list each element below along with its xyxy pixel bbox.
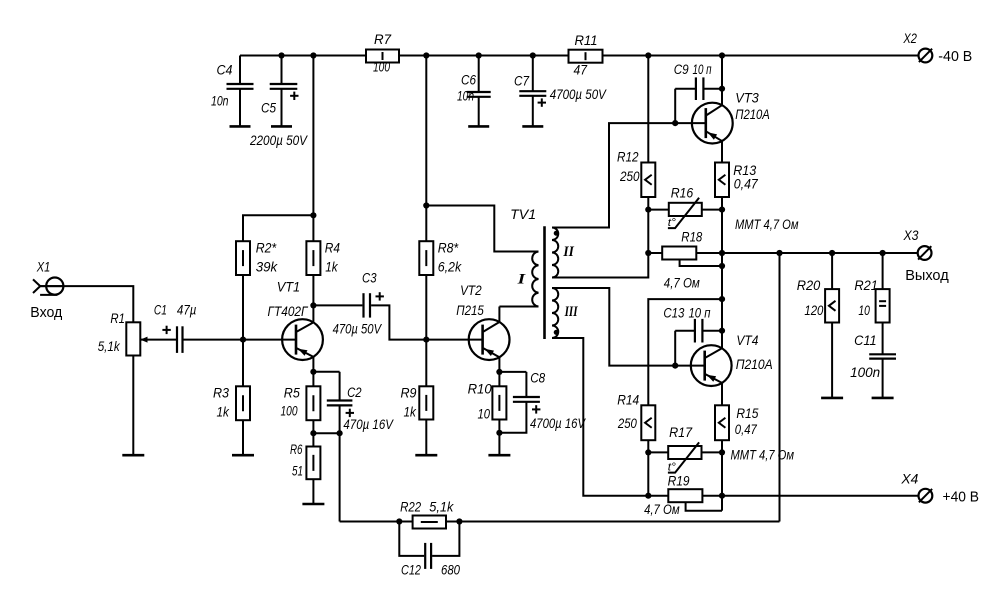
svg-text:II: II [563,244,575,260]
node R10/C8 [496,430,502,436]
ground R20 [821,397,843,400]
svg-text:ГТ402Г: ГТ402Г [268,304,309,319]
wire R5 to R6 [312,420,314,446]
wire R9 bottom [425,420,427,456]
wire output row to X3 [722,252,918,254]
svg-text:R10: R10 [468,382,492,397]
wire R10 bottom [498,420,500,456]
svg-text:X3: X3 [903,228,919,243]
resistor R11 [569,33,603,78]
wire C7 branch [532,56,534,92]
node R18 right [719,250,725,256]
svg-text:R1: R1 [110,311,125,326]
wire VT4 emitter to R15 [721,383,723,405]
svg-text:VT2: VT2 [460,283,482,298]
wire C8 bottom [499,403,526,433]
svg-text:I: I [516,272,526,288]
svg-text:10: 10 [478,406,491,421]
wire C13 tap down [674,331,676,366]
wire C12 right branch [432,522,459,556]
svg-text:C1: C1 [154,303,167,318]
svg-text:10 п: 10 п [689,306,711,321]
svg-text:47µ: 47µ [177,303,197,318]
wire R22 right [446,521,780,523]
svg-text:51: 51 [292,463,303,478]
connector X1 [30,259,63,321]
wire C5 branch [281,56,283,85]
resistor R10 [468,382,507,422]
wire C9 tap down [674,89,676,123]
capacitor C3 [333,271,384,337]
wire R4 to VT1 collector [312,275,314,322]
svg-text:10: 10 [858,303,870,318]
svg-text:ММТ 4,7 Ом: ММТ 4,7 Ом [731,448,795,463]
wire VT2 base [426,339,482,341]
wire R2-R3 column [242,275,244,386]
resistor R3 [213,385,250,420]
svg-text:0,47: 0,47 [735,422,757,437]
node rail-C6 [476,52,482,58]
svg-text:t°: t° [668,217,677,229]
svg-text:C8: C8 [530,371,545,386]
transistor VT2 [456,283,509,360]
wire R16 right lead [702,209,722,211]
wire R17 left lead [648,451,668,453]
wire C2 top stem [339,372,341,400]
wire winding II top to VT3 base [552,123,706,227]
svg-text:R21: R21 [854,278,878,293]
svg-text:4700µ 16V: 4700µ 16V [530,416,587,431]
wire C13 right [702,330,722,332]
wire feedback column up [779,253,781,522]
svg-text:R19: R19 [668,473,690,488]
svg-text:1k: 1k [325,260,338,275]
transistor VT1 [268,280,323,360]
node R4 column top link [310,212,316,218]
wire winding III top to VT4 base [552,288,705,366]
transistor VT3 [692,91,770,144]
resistor R8 [419,241,462,276]
thermistor R16 [668,185,799,232]
capacitor C13 [663,306,711,343]
wire R3 bottom [242,420,244,455]
ground C11 [872,397,894,400]
svg-text:VT4: VT4 [736,333,758,348]
svg-text:250: 250 [619,169,640,184]
svg-text:470µ 50V: 470µ 50V [333,321,383,336]
capacitor C2 [327,385,395,432]
svg-text:R5: R5 [284,385,300,400]
wire R19 tap [686,502,722,511]
svg-text:t°: t° [668,462,677,474]
wire R14 top link [648,299,722,405]
ground R1 [122,454,144,457]
wire C6 branch [478,56,480,93]
node rail-R4 [310,52,316,58]
node R12/R16 left [645,207,651,213]
node output feedback [776,250,782,256]
svg-text:Выход: Выход [905,267,949,284]
wire C4 branch [239,56,241,85]
node VT1 collector / C3 [310,302,316,308]
wire -40V top rail [240,55,918,57]
wire TV1 primary bottom [499,306,538,308]
svg-text:100n: 100n [850,365,880,380]
svg-text:П210А: П210А [735,107,770,122]
wire R8 column top [425,56,427,242]
wire C12 branch [399,522,424,556]
ground R3 [232,454,254,457]
transformer winding II [552,228,575,278]
svg-text:120: 120 [804,303,823,318]
svg-text:4700µ 50V: 4700µ 50V [550,87,608,102]
svg-text:R20: R20 [797,278,821,293]
node rail-VT3 [719,52,725,58]
resistor R13 [715,163,758,198]
terminal X3 [903,228,949,284]
node VT4 base / C13 [672,363,678,369]
svg-text:100: 100 [373,60,390,75]
ground R9 [415,454,437,457]
wire VT3 emitter to R13 [721,141,723,163]
wire VT3 collector column [721,56,723,106]
capacitor C11 [850,333,896,380]
wire C13 left [675,330,695,332]
svg-text:39k: 39k [256,260,279,275]
resistor R5 [281,385,321,420]
node C13 / VT4 collector [719,328,725,334]
wire emitter to C8 [499,371,526,373]
node R18 left [645,250,651,256]
wire R8-R9 column [425,275,427,386]
wire R16 left lead [648,209,669,211]
wire output column middle [721,266,723,348]
node VT2 emitter / C8 [496,369,502,375]
svg-text:VT1: VT1 [277,280,301,295]
svg-text:П210А: П210А [736,357,773,372]
resistor R15 [715,405,759,440]
svg-text:R12: R12 [617,150,639,165]
wire R18 tap [680,259,722,266]
svg-text:4,7 Ом: 4,7 Ом [664,276,700,291]
ground R10 [488,454,510,457]
svg-text:10n: 10n [211,94,229,109]
wire winding II bottom [552,253,648,278]
capacitor C5 [249,84,309,148]
capacitor C9 [674,62,712,100]
node R19 left [645,493,651,499]
capacitor C1 [154,303,197,353]
node output R20 [829,250,835,256]
transformer winding I [516,252,538,307]
wire R14 to R17 [647,440,649,496]
node R8 column TV1 tap [423,202,429,208]
node VT1 emitter / C2 [310,369,316,375]
svg-text:6,2k: 6,2k [438,260,463,275]
thermistor R17 [668,425,794,474]
svg-text:R16: R16 [671,185,694,200]
svg-text:C4: C4 [217,63,233,78]
svg-text:R11: R11 [575,33,598,48]
wire C8 stem [525,372,527,396]
node rail-C5 [278,52,284,58]
wire C2 bottom link [313,432,339,434]
wire R1 wiper to C1 [141,339,176,341]
wire C1 to node A [184,339,297,341]
svg-text:П215: П215 [456,303,484,318]
svg-text:+40 В: +40 В [943,489,980,506]
wire VT2 collector stem [498,307,500,323]
node rail-C7 [530,52,536,58]
node R18 tap [719,263,725,269]
resistor R2 [236,240,278,275]
node VT2 base / R8 / R9 [423,337,429,343]
svg-text:R8*: R8* [438,241,459,256]
wire feedback down from C2 [339,433,341,521]
svg-text:1k: 1k [217,404,230,419]
terminal X4 [900,471,979,505]
svg-text:R3: R3 [213,385,229,400]
resistor R21 [854,278,889,322]
node rail-R8 [423,52,429,58]
wire C3 right to VT2 base [371,305,426,339]
svg-text:R4: R4 [325,240,340,255]
resistor R4 [306,240,340,275]
wire R18 left lead [648,252,662,254]
svg-text:R9: R9 [401,385,417,400]
wire R6 bottom [312,479,314,504]
wire R2 top link [243,215,313,275]
svg-text:R2*: R2* [256,240,277,255]
svg-text:5,1k: 5,1k [98,339,121,354]
wire TV1 primary top [426,206,538,252]
transformer winding III [552,288,578,338]
wire VT1 collector column top [312,56,314,242]
wire C3 left [313,304,362,306]
wire VT2 emitter [498,357,500,386]
node R17 left [645,449,651,455]
resistor R9 [401,385,434,419]
node output column R14 link [719,296,725,302]
ground R6 [302,503,324,506]
wire R12 to R16 node [647,197,649,253]
wire X1 to R1 [40,286,134,322]
transistor VT4 [691,333,773,386]
wire C9 right [703,88,722,90]
wire feedback to R22 [340,521,413,523]
resistor R20 [797,278,839,322]
node output R21 [880,250,886,256]
svg-text:X2: X2 [903,31,918,46]
svg-text:C13: C13 [663,306,684,321]
transformer TV1 core [510,207,544,339]
svg-text:C9: C9 [674,62,689,77]
svg-text:TV1: TV1 [510,207,536,222]
wire R18 right lead [696,252,722,254]
wire +40V row to X4 [722,495,918,497]
svg-text:5,1k: 5,1k [429,500,454,515]
wire C9 left [675,88,696,90]
wire C2 stem bottom [339,406,341,433]
svg-text:X1: X1 [36,259,50,274]
svg-text:R17: R17 [669,425,692,440]
wire R21 stem top [882,253,884,289]
resistor R12 [617,150,655,198]
capacitor C8 [513,371,587,431]
wire R19 left lead [648,495,668,497]
svg-text:R14: R14 [617,392,639,407]
resistor R7 [366,32,399,75]
node R22 right [456,518,462,524]
node R19 right [719,493,725,499]
node C9 / VT3 collector [719,86,725,92]
capacitor C12 [401,543,460,577]
svg-text:ММТ 4,7 Ом: ММТ 4,7 Ом [735,217,799,232]
svg-text:47: 47 [574,63,588,78]
capacitor C7 [514,74,607,127]
capacitor C4 [211,63,254,127]
svg-text:C12: C12 [401,562,421,577]
resistor R6 [290,442,320,479]
svg-text:C5: C5 [261,101,276,116]
svg-text:C6: C6 [461,72,476,87]
svg-text:R7: R7 [374,32,391,47]
svg-text:4,7 Ом: 4,7 Ом [644,502,680,517]
node R13/R16 right [719,207,725,213]
node R5/R6/C2 [310,430,316,436]
svg-text:10 п: 10 п [693,62,712,77]
svg-text:2200µ 50V: 2200µ 50V [249,133,309,148]
svg-text:III: III [564,304,579,320]
svg-text:10n: 10n [457,89,474,104]
svg-text:680: 680 [441,562,460,577]
wire R1 bottom [132,356,134,456]
wire winding III bottom [552,338,648,496]
svg-text:100: 100 [281,403,298,418]
wire R12 column top [647,56,649,163]
capacitor C6 [457,72,491,126]
svg-text:R15: R15 [736,406,758,421]
node R22 left [396,518,402,524]
svg-text:-40 В: -40 В [938,48,972,65]
svg-text:Вход: Вход [30,304,62,321]
resistor R22 [400,500,454,529]
resistor R14 [617,392,655,440]
potentiometer R1 [98,311,148,355]
wire R15 to R17 [721,440,723,511]
svg-text:1k: 1k [404,404,417,419]
svg-text:250: 250 [617,416,637,431]
node VT3 base / C9 [672,120,678,126]
svg-text:0,47: 0,47 [734,176,758,191]
wire R21 to C11 [882,323,884,355]
svg-text:X4: X4 [900,471,918,486]
wire R20 stem top [831,253,833,289]
wire emitter to C2 [313,371,339,373]
wire VT1 emitter [312,356,314,386]
resistor R19 [644,473,702,517]
node C2 bottom [337,430,343,436]
svg-text:R6: R6 [290,442,303,457]
svg-text:C3: C3 [362,271,377,286]
node A C1/R2/R3/VT1-base [240,337,246,343]
wire R20 stem bottom [831,323,833,398]
svg-text:R22: R22 [400,500,421,515]
resistor R18 [662,229,703,290]
svg-text:470µ 16V: 470µ 16V [343,417,394,432]
node rail-R12 [645,52,651,58]
wire R19 right lead [702,495,722,497]
svg-text:C11: C11 [854,333,877,348]
svg-text:C7: C7 [514,74,529,89]
wire R13 to R16 node [721,197,723,266]
terminal X2 [903,31,973,65]
wire R17 right lead [702,451,723,453]
wire C11 bottom [882,359,884,398]
svg-text:VT3: VT3 [735,91,759,106]
node R17 right [719,449,725,455]
svg-text:R18: R18 [681,229,702,244]
svg-text:C2: C2 [347,385,362,400]
